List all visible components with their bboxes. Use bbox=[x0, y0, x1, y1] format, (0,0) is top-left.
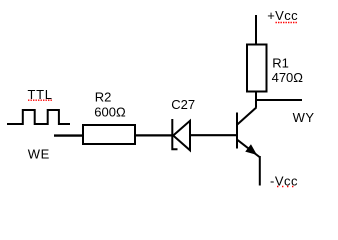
svg-text:+Vcc: +Vcc bbox=[267, 8, 298, 23]
svg-text:C27: C27 bbox=[171, 97, 195, 112]
svg-text:WY: WY bbox=[293, 110, 315, 125]
svg-text:R2: R2 bbox=[95, 89, 112, 104]
svg-text:R1: R1 bbox=[272, 56, 289, 71]
svg-text:470Ω: 470Ω bbox=[272, 70, 304, 85]
svg-text:-Vcc: -Vcc bbox=[270, 173, 298, 188]
svg-text:WE: WE bbox=[28, 146, 50, 161]
svg-text:600Ω: 600Ω bbox=[94, 104, 126, 119]
